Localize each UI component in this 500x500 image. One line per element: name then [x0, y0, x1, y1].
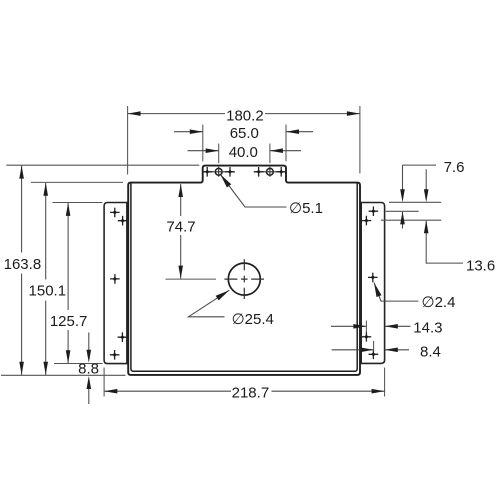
dimension 125.7: [67, 203, 69, 363]
dimension 40.0: [188, 150, 302, 152]
leader dia 25.4: [188, 290, 229, 317]
top tab hole 2 (5.1 dia): [267, 168, 274, 175]
extension line: 180.2 left: [127, 106, 129, 175]
dimension 163.8: [21, 166, 23, 375]
extension line: 40.0 left: [218, 144, 220, 164]
left bend line: [131, 183, 357, 371]
svg-text:8.8: 8.8: [78, 360, 99, 377]
extension line: body bottom (left): [1, 374, 126, 376]
extension line: 218.7 right: [384, 368, 386, 397]
sheet-metal part front face outline: [128, 166, 360, 375]
svg-text:74.7: 74.7: [166, 219, 195, 236]
svg-text:150.1: 150.1: [29, 283, 67, 300]
svg-text:∅2.4: ∅2.4: [422, 294, 456, 311]
dimension 74.7: [180, 184, 182, 279]
leader dia 5.1: [221, 175, 287, 208]
dimension 65.0: [174, 131, 313, 133]
extension line: 218.7 left: [103, 368, 105, 397]
extension line: 40.0 right: [269, 144, 271, 164]
extension line: body top edge (150.1 datum): [31, 181, 123, 183]
dimension 218.7: [104, 390, 384, 392]
left flange (back tab): [104, 203, 127, 364]
svg-text:180.2: 180.2: [226, 107, 264, 124]
svg-text:13.6: 13.6: [466, 258, 495, 275]
extension line: left flange top (125.7 datum): [53, 202, 103, 204]
extension line: top of tab (163.8 datum): [6, 164, 199, 166]
dimension 8.4: [332, 349, 409, 351]
svg-text:7.6: 7.6: [444, 159, 465, 176]
extension line: right flange hole row 1: [386, 210, 419, 212]
extension line: 180.2 right: [359, 106, 361, 174]
svg-text:65.0: 65.0: [230, 125, 259, 142]
extension line: 65.0 left: [202, 125, 204, 162]
svg-text:163.8: 163.8: [4, 256, 42, 273]
dimension 8.8: [88, 333, 90, 405]
extension line: left flange bottom: [54, 363, 103, 365]
svg-text:125.7: 125.7: [50, 313, 88, 330]
right flange hole marks: [369, 206, 379, 216]
top tab hole 2 side center marks: [254, 167, 264, 177]
svg-text:14.3: 14.3: [413, 319, 442, 336]
extension line: 65.0 right: [285, 125, 287, 162]
left flange hole marks: [110, 208, 120, 218]
dimension 7.6: [403, 165, 437, 228]
svg-text:218.7: 218.7: [232, 384, 270, 401]
center hole center mark: [224, 259, 264, 299]
svg-text:8.4: 8.4: [420, 343, 441, 360]
dimension 14.3: [331, 325, 411, 327]
extension line: 8.4 at hole column: [373, 341, 375, 352]
svg-text:40.0: 40.0: [229, 144, 258, 161]
top tab hole 1 side center marks: [202, 167, 212, 177]
top tab hole 1 (5.1 dia): [215, 168, 222, 175]
right flange (back tab): [361, 203, 384, 364]
dimension 13.6: [426, 169, 463, 263]
dimension 180.2: [128, 113, 360, 115]
extension line: right flange top: [389, 201, 441, 203]
svg-text:∅25.4: ∅25.4: [232, 311, 274, 328]
leader dia 2.4: [374, 283, 418, 302]
extension line: right flange hole row 2: [381, 219, 441, 221]
extension line: center hole horizontal (74.7 datum): [166, 278, 217, 280]
center hole 25.4 dia: [228, 263, 260, 295]
dimension 150.1: [45, 183, 47, 375]
svg-text:∅5.1: ∅5.1: [289, 200, 323, 217]
extension line: 14.3 at hole column: [365, 321, 367, 333]
